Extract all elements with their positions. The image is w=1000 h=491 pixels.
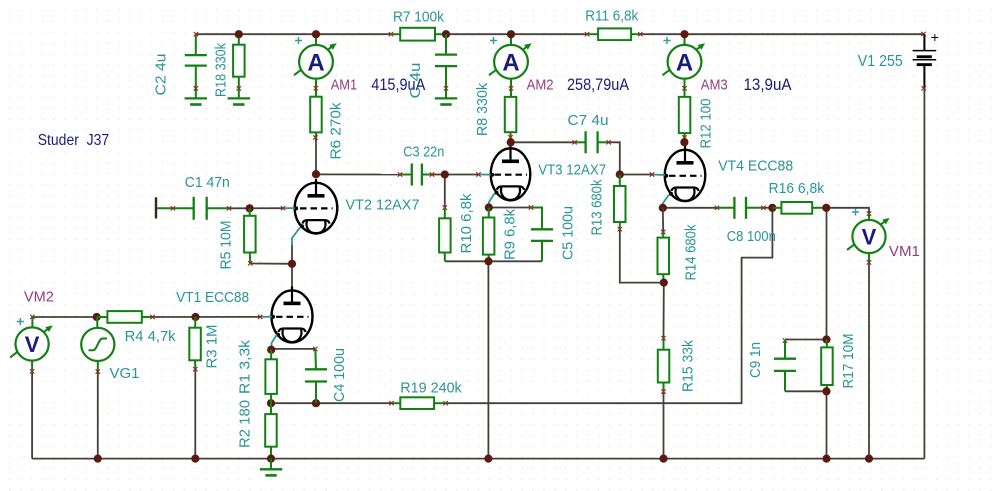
resistor R3 xyxy=(194,317,196,328)
wire VT4 grid stub xyxy=(652,174,665,177)
wire R3 to ground rail xyxy=(194,369,196,459)
wire top supply rail left xyxy=(196,33,391,35)
wire VM2 to ground rail xyxy=(31,371,33,458)
node VT4 plate junction xyxy=(680,138,688,146)
wire R16 output to VM1 xyxy=(826,208,869,214)
node AM1 junction xyxy=(312,30,320,38)
ammeter AM3 xyxy=(684,34,686,45)
svg-text:VT1 ECC88: VT1 ECC88 xyxy=(176,289,249,306)
svg-text:C7 4u: C7 4u xyxy=(568,112,609,129)
svg-text:VT3 12AX7: VT3 12AX7 xyxy=(538,161,606,178)
svg-text:R8 330k: R8 330k xyxy=(474,83,491,136)
triode VT3 xyxy=(491,148,531,200)
resistor R12 xyxy=(679,97,691,133)
svg-text:R10 6,8k: R10 6,8k xyxy=(458,193,475,253)
node C4 bottom junction xyxy=(312,399,320,407)
wire top supply rail right xyxy=(640,33,923,35)
resistor R17 xyxy=(822,335,830,343)
wire output node down to R17 C9 top xyxy=(826,208,828,340)
battery V1 xyxy=(921,32,925,36)
svg-text:+: + xyxy=(931,29,939,45)
svg-text:R17 10M: R17 10M xyxy=(840,334,857,389)
svg-text:VG1: VG1 xyxy=(110,365,140,382)
node C3-R10 junction xyxy=(441,170,449,178)
capacitor C6 xyxy=(445,34,447,54)
capacitor C8 xyxy=(715,206,719,210)
svg-text:V: V xyxy=(25,332,40,357)
svg-text:R2 180: R2 180 xyxy=(237,400,254,448)
node VT2 plate junction xyxy=(312,170,320,178)
svg-text:R6 270k: R6 270k xyxy=(328,102,345,160)
node AM2 junction xyxy=(507,30,515,38)
svg-text:C5 100u: C5 100u xyxy=(559,206,576,260)
wire VT2 cathode to VT1 plate node xyxy=(291,245,293,264)
wire VM1 to ground rail xyxy=(868,262,870,458)
node R7-C6 junction xyxy=(442,30,450,38)
wire VT4 cathode lead xyxy=(663,195,669,207)
wire node C to VT3 grid xyxy=(445,174,479,176)
wire R5 to VT1 plate node xyxy=(250,263,292,265)
voltmeter VM1 xyxy=(867,211,871,215)
resistor R16 xyxy=(772,207,781,209)
wire R19 to R1 R2 node xyxy=(271,402,392,404)
wire V1 battery to ground rail xyxy=(923,88,925,458)
wire input C1 to VT2 grid xyxy=(229,207,283,209)
svg-text:AM2: AM2 xyxy=(527,77,554,94)
resistor R2 xyxy=(270,403,272,414)
svg-text:VM1: VM1 xyxy=(889,243,920,260)
wire input line VM2 to VT1 grid xyxy=(32,316,103,318)
svg-text:A: A xyxy=(676,49,693,76)
wire C7 to node D xyxy=(609,142,620,174)
svg-text:C1 47n: C1 47n xyxy=(185,174,230,191)
node R9 bottom junction xyxy=(484,257,492,265)
svg-text:VT4 ECC88: VT4 ECC88 xyxy=(718,157,793,174)
svg-text:13,9uA: 13,9uA xyxy=(744,76,792,94)
ground under R18 xyxy=(228,97,250,99)
resistor R6 xyxy=(310,97,322,133)
svg-text:AM3: AM3 xyxy=(701,77,728,94)
capacitor C9 xyxy=(783,338,787,342)
node AM3 junction xyxy=(680,30,688,38)
resistor R11 xyxy=(585,32,589,36)
voltmeter VM2 xyxy=(30,315,34,319)
wire bottom ground rail xyxy=(32,458,924,460)
ground under C2 xyxy=(185,97,207,99)
resistor R18 xyxy=(238,34,240,45)
resistor R7 xyxy=(389,32,393,36)
wire VT3 cathode node to C5 xyxy=(489,207,531,209)
wire C3 to node C xyxy=(432,174,445,176)
capacitor C5 xyxy=(529,205,533,209)
svg-text:R7 100k: R7 100k xyxy=(393,9,444,26)
triode VT1 xyxy=(272,290,313,342)
wire node C down to R10 xyxy=(444,175,446,208)
svg-text:C4 100u: C4 100u xyxy=(331,348,348,402)
wire VT1 plate node to tube xyxy=(291,264,293,292)
node R18 junction xyxy=(235,30,243,38)
wire VT2 plate node to C3 xyxy=(316,173,400,175)
wire R13 bottom to R14 bottom node xyxy=(620,229,664,282)
wire cathode bus down to ground rail xyxy=(487,261,489,458)
resistor R19 xyxy=(443,401,447,405)
node VT3 cathode junction xyxy=(485,203,493,211)
resistor R8 xyxy=(505,97,517,132)
svg-text:R19 240k: R19 240k xyxy=(400,379,462,396)
wire VT1 grid stub xyxy=(260,316,272,318)
svg-text:C8 100n: C8 100n xyxy=(727,228,776,245)
svg-text:R4 4,7k: R4 4,7k xyxy=(125,328,176,345)
resistor R1 xyxy=(270,350,272,360)
node VT4 grid junction xyxy=(616,170,624,178)
wire node D to VT4 grid xyxy=(620,174,652,176)
svg-text:R11 6,8k: R11 6,8k xyxy=(585,7,638,24)
sine source VG1 xyxy=(93,313,101,321)
wire VT3 plate node to C7 xyxy=(511,141,575,143)
resistor R4 xyxy=(97,316,108,318)
node VT3 plate junction xyxy=(507,138,515,146)
wire C9 to R17 bottom xyxy=(785,390,827,392)
svg-text:R16 6,8k: R16 6,8k xyxy=(769,180,825,197)
svg-text:C9 1n: C9 1n xyxy=(747,342,764,378)
capacitor C2 xyxy=(195,34,197,55)
wire C8 to R16 node xyxy=(763,207,772,209)
resistor R9 xyxy=(488,208,490,218)
svg-text:R15 33k: R15 33k xyxy=(680,340,697,392)
triode VT4 xyxy=(665,150,706,201)
wire VT2 cathode lead xyxy=(292,228,300,246)
svg-text:A: A xyxy=(307,49,324,76)
resistor R14 xyxy=(662,208,664,232)
node VT1 cathode junction xyxy=(267,346,275,354)
svg-text:C2 4u: C2 4u xyxy=(153,54,170,96)
node R2 ground junction xyxy=(267,455,275,463)
node bottom rail junctions xyxy=(94,455,102,463)
node R3 junction xyxy=(191,313,199,321)
capacitor C3 xyxy=(400,174,412,176)
node C8-R16 junction xyxy=(768,204,776,212)
svg-text:VT2 12AX7: VT2 12AX7 xyxy=(346,197,420,214)
svg-text:R3 1M: R3 1M xyxy=(204,325,221,369)
svg-text:VM2: VM2 xyxy=(24,288,54,305)
wire VT1 cathode node to C4 xyxy=(271,348,315,350)
capacitor C7 xyxy=(575,141,586,143)
ammeter AM2 xyxy=(510,34,512,45)
wire R17 bottom to ground rail xyxy=(826,391,828,458)
triode VT2 xyxy=(295,183,338,233)
ground under C6 xyxy=(435,97,457,99)
wire VT3 cathode lead xyxy=(489,194,495,208)
wire VG1 to ground rail xyxy=(97,372,99,459)
svg-text:R5 10M: R5 10M xyxy=(218,221,235,270)
svg-text:V1 255: V1 255 xyxy=(858,53,903,70)
svg-text:R14 680k: R14 680k xyxy=(683,224,700,280)
svg-text:C 4u: C 4u xyxy=(407,63,424,99)
svg-text:R18 330k: R18 330k xyxy=(213,43,230,97)
svg-text:R9 6,8k: R9 6,8k xyxy=(502,209,519,260)
svg-text:A: A xyxy=(502,49,519,76)
wire R15 to ground rail xyxy=(663,392,665,459)
svg-text:Studer J37: Studer J37 xyxy=(38,132,110,149)
capacitor C1 xyxy=(155,197,157,218)
node VT1 plate junction xyxy=(288,260,296,268)
ground under R2 xyxy=(270,459,272,470)
svg-text:V: V xyxy=(862,224,877,249)
node R1-R2 junction xyxy=(267,399,275,407)
svg-text:C3 22n: C3 22n xyxy=(403,143,444,160)
resistor R13 xyxy=(619,175,621,187)
svg-text:AM1: AM1 xyxy=(331,77,358,94)
resistor R15 xyxy=(661,336,665,340)
svg-text:R1 3,3k: R1 3,3k xyxy=(237,339,254,394)
wire VT1 cathode lead xyxy=(272,335,278,348)
capacitor C4 xyxy=(313,347,317,351)
svg-text:258,79uA: 258,79uA xyxy=(567,76,629,94)
wire VT4 cathode node to C8 xyxy=(663,207,717,209)
svg-text:R13 680k: R13 680k xyxy=(589,179,606,235)
wire VT2 grid stub xyxy=(283,207,295,209)
node VT4 cathode junction xyxy=(659,204,667,212)
node output junction xyxy=(822,204,830,212)
wire C9 to R17 top xyxy=(785,339,827,341)
node R14 bottom junction xyxy=(660,279,668,287)
wire feedback from output node to R19 xyxy=(446,208,773,403)
resistor R5 xyxy=(246,204,254,212)
resistor R10 xyxy=(443,205,447,209)
wire R14 node down to R15 xyxy=(663,283,665,339)
wire R9 R10 C5 bottom bus xyxy=(445,260,542,262)
wire R6 to VT2 plate xyxy=(315,138,317,175)
ammeter AM1 xyxy=(315,34,317,45)
wire VT3 grid stub xyxy=(479,174,491,176)
wire top supply rail middle xyxy=(446,33,587,35)
svg-text:R12 100: R12 100 xyxy=(697,99,714,149)
